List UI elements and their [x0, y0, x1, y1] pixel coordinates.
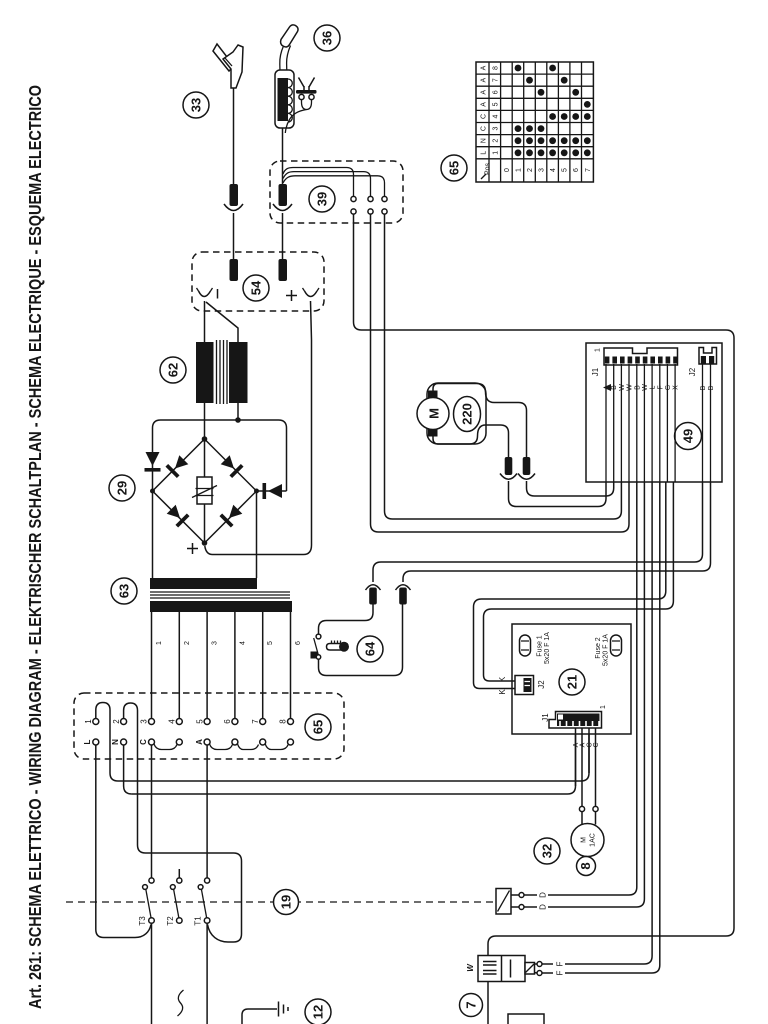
svg-text:B: B [700, 385, 707, 390]
trigger pin wires fan-out in 39 [283, 168, 385, 197]
microswitch of 19 [496, 889, 511, 915]
svg-text:7: 7 [585, 168, 592, 172]
svg-text:C: C [481, 114, 488, 119]
transformer 62 [196, 340, 248, 404]
bottom cut box [508, 1014, 544, 1024]
svg-text:7: 7 [464, 1001, 479, 1008]
wire minus to transformer [205, 301, 239, 342]
svg-text:6: 6 [223, 719, 232, 724]
svg-text:T1: T1 [194, 916, 203, 926]
J1 pin wires inside 49 [606, 364, 675, 482]
svg-text:N: N [481, 138, 488, 143]
svg-text:1AC: 1AC [590, 833, 597, 847]
svg-text:5x20 F 1A: 5x20 F 1A [603, 634, 610, 666]
svg-text:W: W [619, 384, 626, 391]
torch 36 [275, 25, 298, 128]
svg-text:5: 5 [493, 102, 500, 106]
fuse 1 [520, 632, 552, 664]
position matrix table 65 [476, 62, 593, 182]
choke 63 windings [150, 578, 292, 612]
plus label at bridge output [187, 543, 198, 554]
plug pins in 54 [230, 259, 288, 281]
circled ref 63 [111, 578, 137, 604]
dinse panel box 54 (dashed) [192, 252, 324, 311]
switch T1 [194, 878, 210, 926]
wire torch cable [282, 128, 284, 184]
wire winding right to rail [235, 403, 241, 423]
svg-text:64: 64 [363, 641, 378, 656]
svg-text:36: 36 [320, 31, 335, 45]
svg-text:W: W [627, 384, 634, 391]
svg-text:F: F [556, 970, 565, 975]
connector J1 on 49 [591, 348, 678, 376]
svg-text:C: C [139, 739, 148, 745]
circled ref 8 [577, 857, 596, 876]
wire feed motor assembly outline [427, 383, 486, 444]
strip arch link terminal2 [124, 703, 146, 853]
table row headers [481, 65, 500, 154]
svg-text:B: B [611, 385, 618, 390]
bridge 29 diamond [150, 436, 259, 546]
svg-text:C: C [593, 742, 600, 747]
svg-text:1: 1 [493, 151, 500, 155]
svg-text:49: 49 [681, 429, 696, 443]
circled ref 21 [559, 669, 585, 695]
svg-text:8: 8 [279, 719, 288, 724]
wire D2 to J1 pin6 [511, 482, 644, 910]
svg-text:3: 3 [140, 719, 149, 724]
circled ref 220 [454, 397, 481, 432]
earth symbol [279, 1002, 289, 1017]
switch T2 [166, 869, 182, 926]
terminal strip 65 (dashed box) [74, 693, 344, 759]
svg-text:62: 62 [166, 363, 181, 377]
connector J2 on 49 [688, 348, 717, 377]
svg-text:32: 32 [540, 844, 555, 858]
wire N down [124, 745, 132, 794]
svg-text:T3: T3 [138, 916, 147, 926]
trigger pin contacts (3 circle pairs) [351, 196, 387, 214]
svg-text:A: A [481, 90, 488, 95]
bridge diode top-left [167, 455, 189, 477]
circled ref 64 [357, 636, 383, 662]
connector J1 on 21 [541, 705, 607, 728]
wire mains line1 [151, 923, 153, 1024]
svg-text:K: K [498, 676, 507, 682]
svg-text:M: M [581, 837, 588, 843]
circled ref 36 [314, 25, 340, 51]
strip jumper links row2 [154, 744, 288, 750]
svg-text:W: W [642, 384, 649, 391]
svg-text:Fuse 1: Fuse 1 [537, 635, 544, 657]
wire motor brush top to plug [433, 384, 527, 458]
svg-text:5: 5 [267, 641, 274, 645]
svg-text:2: 2 [493, 139, 500, 143]
svg-text:6: 6 [573, 168, 580, 172]
svg-text:D: D [539, 904, 548, 910]
svg-text:7: 7 [493, 78, 500, 82]
rail above bridge [153, 420, 287, 491]
choke tap wires 1-6 [152, 612, 303, 719]
long wire to feed pcb (y794) [132, 728, 576, 794]
wire J2b to thermostat right [403, 482, 711, 582]
svg-text:J1: J1 [591, 367, 600, 376]
svg-text:K: K [498, 689, 507, 695]
wire A to switch T1 top [206, 745, 208, 878]
svg-text:X: X [673, 385, 680, 390]
thermostat plug pair (cups + bars) [366, 585, 411, 605]
thermostat 64 loop wiring [319, 605, 403, 676]
svg-text:3: 3 [493, 127, 500, 131]
wire term2 to switch T1 bottom [146, 853, 242, 942]
svg-text:C: C [481, 126, 488, 131]
wire C to switch T3 top [151, 745, 153, 878]
svg-text:0: 0 [504, 168, 511, 172]
circled ref 29 [109, 475, 135, 501]
svg-text:2: 2 [112, 719, 121, 724]
wire F2 to J1 pin8 [535, 482, 660, 976]
torch trigger switch [285, 78, 316, 134]
wire winding left to bridge top [204, 403, 206, 439]
wire trigger pin3 to J1 pin3 [385, 214, 622, 519]
strip row2 terminals L N C A [83, 739, 294, 745]
bridge diode top-right [221, 455, 243, 477]
svg-text:1: 1 [84, 719, 93, 724]
thermostat switch 64 [311, 634, 321, 659]
wire L to switch T3 [96, 745, 151, 938]
circled ref 65 strip [305, 714, 331, 740]
svg-text:21: 21 [565, 675, 580, 689]
svg-text:2: 2 [184, 641, 191, 645]
svg-text:J2: J2 [688, 367, 697, 376]
circled ref 32 [534, 838, 560, 864]
strip arch link terminal1 [96, 703, 118, 782]
svg-text:G: G [665, 385, 672, 390]
wire plus down right side [205, 301, 312, 555]
svg-text:4: 4 [550, 168, 557, 172]
svg-text:1: 1 [600, 705, 607, 709]
wire F1 to J1 pin7 [535, 482, 653, 967]
long wire to feed pcb (y781) [118, 728, 589, 781]
svg-text:F: F [657, 385, 664, 389]
bridge diode bottom-left [167, 505, 189, 527]
bridge diode bottom-right [221, 505, 243, 527]
svg-text:7: 7 [251, 719, 260, 724]
svg-text:19: 19 [279, 895, 294, 909]
svg-text:65: 65 [311, 720, 326, 734]
svg-text:39: 39 [315, 192, 330, 206]
wire D1 to J1 pin5 [511, 482, 637, 898]
table dots [515, 65, 591, 157]
svg-text:8: 8 [493, 66, 500, 70]
svg-text:Fuse 2: Fuse 2 [595, 637, 602, 659]
circled ref 65 table [441, 155, 467, 181]
socket plus [286, 288, 319, 301]
svg-text:B: B [634, 385, 641, 390]
wire motor brush bottom to plug [433, 425, 509, 457]
svg-text:12: 12 [311, 1005, 326, 1019]
svg-text:B: B [708, 385, 715, 390]
svg-text:8: 8 [578, 862, 593, 869]
wire W box down [487, 982, 489, 1024]
wire clamp cable [233, 88, 235, 184]
wire mains line2 [206, 923, 208, 1024]
svg-text:D: D [539, 892, 548, 898]
circled ref 54 [243, 275, 269, 301]
svg-text:Art. 261: SCHEMA ELETTRICO - W: Art. 261: SCHEMA ELETTRICO - WIRING DIAG… [25, 85, 45, 1009]
svg-text:33: 33 [189, 98, 204, 112]
diode outer-right [258, 483, 287, 499]
switch T3 [138, 878, 154, 926]
socket minus [197, 288, 218, 299]
mains filter W box 7 [466, 956, 535, 982]
circled ref 7 [460, 994, 483, 1017]
wire J2a to thermostat left [373, 482, 703, 582]
svg-text:4: 4 [168, 719, 177, 724]
connector plug torch (cable plug + socket cup) [273, 184, 292, 259]
fan motor 8 M1AC [571, 824, 604, 857]
svg-text:L: L [83, 739, 92, 744]
svg-text:29: 29 [115, 481, 130, 495]
circled ref 19 [274, 890, 299, 915]
dashed mechanical link 19 [66, 901, 496, 903]
circled ref 62 [160, 357, 186, 383]
svg-text:A: A [481, 78, 488, 83]
J2 pin wires inside 49 [700, 364, 715, 482]
mains cable squiggle [178, 990, 184, 1016]
control board 49 [586, 343, 722, 482]
svg-text:5x20 F 1A: 5x20 F 1A [544, 632, 551, 664]
J1 wire labels [603, 384, 680, 391]
circled ref 33 [183, 92, 209, 118]
connector box 39 (dashed) [270, 161, 403, 223]
svg-text:6: 6 [493, 90, 500, 94]
svg-text:Pos.: Pos. [485, 161, 492, 175]
svg-text:M: M [427, 408, 442, 419]
svg-text:4: 4 [239, 641, 246, 645]
svg-text:3: 3 [212, 641, 219, 645]
svg-text:1: 1 [156, 641, 163, 645]
svg-text:3: 3 [539, 168, 546, 172]
svg-text:5: 5 [195, 719, 204, 724]
circled ref 39 [309, 186, 335, 212]
table column headers 0-7 [504, 168, 592, 172]
wire trigger pin1 big loop to W filter [354, 214, 735, 956]
fuse 2 [595, 634, 622, 666]
strip row1 terminals 1-8 [84, 719, 294, 725]
svg-text:A: A [580, 742, 587, 747]
thermometer symbol [327, 641, 350, 652]
diode outer-left [145, 452, 161, 472]
svg-text:220: 220 [460, 403, 475, 425]
svg-text:4: 4 [493, 114, 500, 118]
svg-text:T2: T2 [166, 916, 175, 926]
wire bridge left to choke [152, 491, 154, 578]
svg-text:1: 1 [595, 348, 602, 352]
svg-text:L: L [650, 385, 657, 389]
svg-text:63: 63 [117, 584, 132, 598]
svg-text:J1: J1 [541, 713, 550, 722]
svg-text:J2: J2 [537, 680, 546, 689]
svg-text:F: F [556, 961, 565, 966]
connector plug clamp (cable plug + socket cup) [224, 184, 243, 261]
varistor in bridge [192, 441, 217, 541]
svg-text:54: 54 [249, 280, 264, 295]
J1-21 wires down [573, 728, 600, 807]
wire motor plug left to J1 pin1 [509, 481, 607, 507]
svg-text:L: L [481, 151, 488, 155]
svg-text:5: 5 [562, 168, 569, 172]
wire trigger pin2 to J1 pin4 [371, 214, 630, 532]
circled ref 49 [675, 423, 702, 450]
svg-text:6: 6 [295, 641, 302, 645]
svg-text:1: 1 [516, 168, 523, 172]
svg-text:65: 65 [447, 161, 462, 175]
svg-text:2: 2 [527, 168, 534, 172]
svg-text:A: A [481, 102, 488, 107]
wire feed motor M 220 [417, 391, 449, 437]
connector J2 on 21 with KK wires [474, 482, 674, 695]
svg-text:A: A [195, 739, 204, 745]
svg-text:N: N [111, 739, 120, 745]
pcb 21 board [512, 624, 631, 734]
svg-text:A: A [481, 65, 488, 70]
electrode clamp 33 [213, 44, 243, 88]
title text [25, 85, 45, 1009]
wire motor plug right to J1 pin2 [527, 481, 614, 496]
circled ref 12 [305, 999, 331, 1024]
wire bridge right to choke [256, 491, 258, 578]
wire PE earth [242, 1009, 277, 1024]
motor plug pair (bars + cups) [500, 457, 535, 479]
fan motor wires with contacts [579, 806, 598, 824]
